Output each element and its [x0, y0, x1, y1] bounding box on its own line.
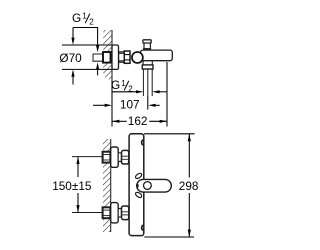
svg-text:298: 298	[179, 179, 199, 193]
svg-text:G: G	[111, 78, 120, 92]
svg-text:Ø70: Ø70	[59, 51, 82, 65]
svg-text:2: 2	[89, 17, 94, 26]
svg-text:G: G	[72, 11, 81, 25]
svg-text:162: 162	[128, 114, 148, 128]
svg-text:2: 2	[128, 85, 133, 94]
svg-text:150±15: 150±15	[52, 179, 92, 193]
svg-text:107: 107	[120, 98, 140, 112]
